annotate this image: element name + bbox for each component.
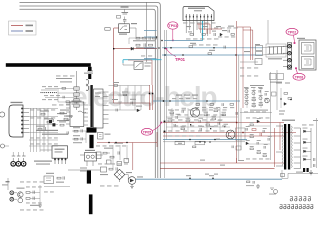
label redrail2 bbox=[240, 75, 258, 78]
label tiny rows left2 bbox=[80, 171, 87, 172]
switch SW801 bbox=[134, 62, 143, 70]
wire bbox=[44, 186, 70, 188]
output caps bbox=[314, 158, 315, 167]
resistor R807 bbox=[74, 99, 79, 102]
component marks bbox=[99, 135, 102, 137]
label rows bbox=[250, 85, 264, 86]
rectifier diodes D820-D823 bbox=[303, 128, 312, 161]
connector CN801 body bbox=[183, 6, 214, 20]
test point TP02 circle bbox=[286, 28, 298, 35]
connector circle left bbox=[1, 144, 5, 148]
wire bbox=[30, 192, 40, 194]
node bbox=[189, 178, 190, 179]
wire power bbox=[160, 162, 284, 164]
inlet module upper detail bbox=[304, 45, 311, 51]
connector CN803 body bbox=[9, 105, 23, 137]
label bbox=[44, 118, 53, 119]
label bottomleft2 bbox=[20, 209, 44, 212]
test point TP08 lead bbox=[296, 70, 297, 74]
label bl extra2 bbox=[26, 202, 42, 205]
label bbox=[244, 51, 250, 52]
wire bbox=[109, 85, 151, 87]
transformer T802 core bar1 bbox=[284, 124, 286, 170]
label bbox=[145, 63, 152, 64]
label bbox=[222, 30, 227, 31]
capacitor C808 bbox=[74, 104, 79, 107]
diode D802 bbox=[220, 33, 222, 36]
component at end bbox=[281, 174, 285, 177]
wire mid gray bbox=[163, 141, 245, 143]
jack J5 bbox=[10, 197, 14, 201]
relay block bbox=[256, 46, 263, 51]
wire mesh bbox=[29, 108, 58, 152]
wire bbox=[206, 108, 208, 132]
node bbox=[170, 47, 171, 48]
resistor R847 bbox=[110, 156, 114, 158]
relay block2 bbox=[256, 52, 263, 56]
inlet module lower detail bbox=[304, 59, 311, 65]
wire power bbox=[243, 29, 253, 31]
wire bbox=[101, 154, 103, 156]
signal wire mid bbox=[163, 139, 247, 141]
svg-text:TP08: TP08 bbox=[295, 75, 304, 79]
label cluster extra1 bbox=[170, 119, 223, 122]
node bbox=[156, 36, 157, 37]
svg-text:TP02: TP02 bbox=[288, 30, 297, 34]
wire bbox=[171, 108, 173, 132]
resistor R852 bbox=[288, 98, 292, 100]
resistor R831 bbox=[47, 121, 51, 123]
box around Q804 bbox=[236, 128, 246, 140]
resistor R840 bbox=[26, 192, 30, 194]
diode D803 bbox=[137, 109, 140, 112]
wire bbox=[240, 112, 272, 114]
capacitor C846 bbox=[118, 151, 119, 154]
dark component pair2 bbox=[52, 123, 55, 126]
wire power B+ bbox=[163, 122, 284, 124]
rectifier diode D812 bbox=[128, 177, 136, 185]
label bbox=[119, 34, 127, 35]
component box r bbox=[272, 92, 277, 96]
label rows below CN801 b bbox=[186, 38, 219, 41]
dashed net dots bbox=[40, 92, 56, 93]
wire bbox=[124, 17, 126, 20]
isolation barrier segment bbox=[89, 194, 93, 214]
inlet module upper bbox=[302, 43, 315, 55]
wire bbox=[45, 88, 58, 90]
label bbox=[186, 175, 191, 176]
wire bbox=[246, 88, 248, 108]
optocoupler PC801 bbox=[85, 153, 97, 162]
resistor R829 bbox=[64, 118, 68, 120]
wire bbox=[107, 152, 110, 154]
resistor R851 bbox=[284, 93, 288, 95]
wire right edge bbox=[296, 172, 318, 174]
label bbox=[73, 127, 80, 128]
label bbox=[126, 172, 132, 173]
label bbox=[64, 116, 73, 117]
wire horizontal bbox=[240, 61, 258, 63]
label bl extra3 bbox=[44, 191, 54, 194]
label near red bbox=[238, 160, 244, 161]
connector CN802 strip bbox=[287, 43, 291, 69]
capacitor C841 bbox=[33, 197, 34, 200]
capacitor C834 bbox=[67, 131, 68, 134]
capacitor C820 bbox=[224, 46, 225, 49]
signal wire riser bbox=[202, 21, 204, 41]
node bbox=[209, 141, 210, 142]
node bbox=[158, 47, 159, 48]
connector CN801 pin leads bbox=[186, 21, 211, 36]
signal stub bbox=[144, 47, 157, 49]
resistor R804 bbox=[202, 34, 205, 36]
wire power bbox=[163, 132, 296, 134]
wire bbox=[316, 118, 318, 168]
wire bbox=[124, 21, 126, 24]
tap rail bbox=[300, 128, 302, 169]
parts below bottom wire bbox=[246, 181, 254, 186]
label bbox=[105, 134, 111, 135]
IC801 label bbox=[72, 101, 82, 102]
wire bbox=[129, 27, 136, 29]
parts row under wire bbox=[196, 103, 234, 106]
resistor R808 bbox=[62, 87, 66, 89]
wire power bbox=[199, 28, 222, 30]
label bbox=[113, 82, 119, 83]
output rail bbox=[310, 128, 312, 168]
label bbox=[296, 172, 303, 173]
isolation barrier horizontal bbox=[6, 63, 91, 67]
resistor R814 bbox=[149, 44, 153, 46]
label bbox=[73, 135, 80, 136]
IC802 pins bbox=[54, 158, 66, 164]
component cluster secondary bbox=[168, 108, 229, 131]
capacitor C810 bbox=[149, 36, 150, 39]
wire gray cont bbox=[282, 173, 296, 178]
label bbox=[59, 121, 66, 122]
capacitor C833 bbox=[81, 137, 82, 140]
label leftcol bbox=[56, 75, 75, 78]
wire bus outer bbox=[20, 3, 161, 178]
wire bbox=[58, 88, 74, 90]
wire bbox=[109, 94, 146, 96]
label bbox=[122, 92, 128, 93]
resistor R802 bbox=[105, 28, 110, 31]
resistor R832 bbox=[38, 128, 42, 130]
wire bbox=[119, 86, 121, 111]
wire bbox=[58, 101, 74, 103]
signal wire bottom bbox=[136, 178, 282, 180]
label big row bbox=[36, 130, 58, 131]
label rows2 bbox=[250, 110, 268, 111]
capacitor C801 bbox=[122, 12, 129, 14]
label mesh left3 bbox=[30, 137, 58, 140]
transformer T802 taps bbox=[294, 128, 301, 169]
transformer T802 label bbox=[282, 120, 295, 121]
label cluster secondary top bbox=[168, 109, 227, 112]
wire bbox=[123, 64, 130, 66]
capacitor C832 bbox=[81, 129, 82, 132]
node bbox=[161, 40, 162, 41]
wire bbox=[262, 53, 287, 55]
label bbox=[178, 143, 182, 144]
label bbox=[209, 50, 215, 51]
test point TP05 circle bbox=[141, 128, 152, 135]
label bbox=[73, 142, 82, 143]
label bbox=[104, 148, 113, 149]
wire bbox=[270, 72, 272, 160]
label midbottom2 bbox=[98, 163, 128, 166]
label bbox=[36, 126, 45, 127]
wire bbox=[45, 97, 58, 99]
signal riser bbox=[122, 60, 124, 63]
component cluster right bbox=[245, 88, 269, 107]
IC802 body bbox=[52, 146, 68, 158]
connector pin row 1 bbox=[290, 196, 311, 201]
wire bbox=[109, 102, 151, 104]
vertical bbox=[119, 145, 121, 160]
resistor R815 bbox=[114, 85, 118, 87]
IC801 primary controller bbox=[70, 102, 84, 127]
wire power bbox=[97, 142, 157, 144]
label cluster2 bbox=[60, 81, 72, 82]
capacitor C845 bbox=[116, 167, 117, 170]
test point TP03 pad bbox=[172, 39, 174, 41]
wire bbox=[14, 198, 17, 200]
wire bbox=[125, 174, 128, 176]
wire power bbox=[198, 24, 200, 29]
inlet module lower bbox=[302, 57, 315, 69]
wire bbox=[109, 109, 142, 111]
label transformer right bbox=[302, 124, 314, 127]
red component2 bbox=[260, 133, 261, 136]
wire bbox=[134, 86, 136, 111]
wire bbox=[30, 198, 40, 200]
capacitor C816 bbox=[236, 112, 237, 115]
wire gray up bbox=[281, 170, 283, 178]
wire bbox=[58, 92, 74, 94]
wire bbox=[57, 89, 59, 103]
wire power bbox=[114, 27, 119, 29]
resistor R816 bbox=[123, 94, 127, 96]
label bbox=[200, 160, 205, 161]
label rows below CN801 d bbox=[214, 27, 238, 30]
dense text bbox=[2, 184, 8, 185]
wire bbox=[248, 143, 270, 145]
label bbox=[270, 82, 282, 83]
resistor R834 bbox=[74, 138, 78, 140]
dark component pair bbox=[49, 120, 52, 123]
label under wire bbox=[195, 106, 234, 109]
label bbox=[188, 31, 192, 32]
vertical wire bbox=[7, 178, 9, 190]
ground bottom mid bbox=[256, 184, 260, 188]
wire bbox=[72, 138, 86, 140]
connector pin row 2 bbox=[280, 204, 313, 209]
label mesh top2 bbox=[44, 94, 60, 97]
wire power bbox=[206, 29, 208, 34]
relay contact bbox=[120, 26, 127, 30]
resistor R812 bbox=[153, 37, 157, 39]
IC801 label2 bbox=[72, 104, 80, 105]
wire bus middle bbox=[20, 6, 158, 178]
label redrail bbox=[240, 67, 258, 70]
wire power vertical bbox=[113, 28, 115, 103]
label bbox=[216, 26, 221, 27]
wire power bottom bbox=[236, 158, 238, 163]
ground under D812 bbox=[130, 184, 134, 188]
label bbox=[145, 66, 151, 67]
wire bbox=[5, 145, 10, 147]
relay RL801 bbox=[119, 24, 130, 33]
label bbox=[131, 23, 137, 24]
primary winding bbox=[86, 80, 89, 91]
transformer T802 primary winding bbox=[282, 125, 283, 167]
label bbox=[112, 99, 118, 100]
wire power bbox=[250, 27, 252, 60]
label bbox=[60, 110, 69, 111]
wire bbox=[187, 108, 189, 132]
capacitor C828 bbox=[70, 115, 71, 118]
transformer T801 secondary box bbox=[94, 89, 104, 128]
label above wire bbox=[172, 97, 197, 100]
node bbox=[213, 47, 214, 48]
box small2 bbox=[117, 162, 122, 166]
test point TP08 circle bbox=[293, 73, 305, 80]
capacitor C806 bbox=[214, 33, 215, 36]
wire bbox=[166, 126, 230, 128]
capacitor C843 bbox=[63, 176, 64, 179]
wire bbox=[128, 38, 130, 44]
label bbox=[46, 173, 54, 174]
component box pair bbox=[270, 74, 277, 80]
label cluster secondary low bbox=[168, 130, 225, 133]
test point TP01 pad bbox=[165, 48, 167, 50]
resistor R846 bbox=[103, 152, 107, 154]
node bbox=[182, 54, 183, 55]
label leftcol2 bbox=[52, 104, 71, 107]
component hang box bbox=[175, 141, 185, 145]
choke L801 bbox=[78, 111, 86, 113]
connector CN802 wires bbox=[283, 46, 287, 66]
wire bbox=[72, 130, 86, 132]
resistor R811 bbox=[142, 37, 146, 39]
capacitor C831 bbox=[44, 127, 45, 130]
node bbox=[189, 139, 190, 140]
label in box bbox=[95, 93, 101, 94]
wire power bbox=[197, 23, 210, 25]
wire bbox=[68, 169, 100, 171]
wire power bbox=[156, 132, 158, 147]
wire power bbox=[132, 143, 134, 171]
label rightcluster2 bbox=[244, 111, 266, 114]
IC801 pins bbox=[66, 104, 88, 125]
part above red bbox=[193, 146, 196, 148]
fuse symbol below barrier bbox=[87, 71, 93, 73]
capacitor C814 bbox=[116, 109, 117, 112]
label bbox=[285, 83, 290, 84]
test point TP08 pad bbox=[295, 67, 297, 69]
wire bbox=[129, 37, 157, 39]
signal wire primary bbox=[123, 59, 162, 61]
label bbox=[17, 188, 25, 189]
node bbox=[206, 100, 207, 101]
label bbox=[40, 111, 49, 112]
wire power corner bbox=[150, 85, 153, 110]
component box bbox=[98, 133, 104, 140]
optocoupler label bbox=[85, 150, 95, 151]
node junction bbox=[164, 131, 166, 133]
component box mid bbox=[96, 152, 101, 159]
label bbox=[57, 113, 67, 114]
svg-text:TP01: TP01 bbox=[175, 57, 186, 62]
legend label Signal bbox=[26, 30, 34, 32]
switch contact bbox=[136, 63, 143, 68]
connector CN802 pins bbox=[288, 45, 291, 69]
component hang box2 bbox=[195, 141, 205, 145]
node bbox=[280, 98, 281, 99]
label bbox=[186, 26, 191, 27]
resistor R833 bbox=[74, 130, 78, 132]
label bbox=[57, 120, 69, 121]
wire bbox=[58, 97, 74, 99]
node bbox=[236, 122, 237, 123]
node bbox=[242, 132, 243, 133]
legend signal line bbox=[11, 30, 23, 32]
node bbox=[212, 178, 213, 179]
jack wires bbox=[13, 152, 23, 156]
wire bbox=[219, 108, 221, 132]
label mesh left bbox=[30, 109, 55, 112]
label dashes bbox=[41, 89, 57, 92]
connector CN803 pins bbox=[21, 108, 29, 134]
label text rows bbox=[34, 161, 52, 162]
wire power bbox=[242, 27, 244, 108]
label tiny rows left bbox=[80, 168, 87, 169]
label bbox=[279, 114, 284, 115]
power inlet module box bbox=[299, 40, 316, 70]
transformer T802 core bar2 bbox=[288, 124, 290, 170]
label bbox=[279, 111, 285, 112]
capacitor C840 bbox=[33, 191, 34, 194]
resistor R845 bbox=[109, 168, 113, 170]
component box bbox=[101, 167, 107, 172]
box right mid bbox=[236, 146, 241, 150]
fuse F801 bbox=[74, 87, 79, 90]
wire power bbox=[237, 26, 251, 28]
label bbox=[114, 143, 123, 144]
test point TP02 lead bbox=[294, 35, 295, 42]
box bbox=[255, 59, 262, 65]
isolation barrier step bbox=[88, 67, 92, 71]
node bbox=[163, 100, 165, 102]
signal wire bbox=[164, 40, 203, 42]
wire bbox=[248, 125, 270, 127]
isolation barrier segment bbox=[87, 170, 91, 183]
label mesh top3 bbox=[42, 98, 58, 101]
transistor Q801 bbox=[18, 192, 24, 198]
transistor Q805 bbox=[265, 98, 270, 103]
bridge rectifier D810 bbox=[114, 169, 125, 179]
connector CN801 label bbox=[188, 8, 205, 9]
jack J4 bbox=[10, 191, 14, 195]
polarity marks bbox=[303, 168, 305, 172]
label bbox=[216, 139, 220, 140]
label mesh top bbox=[42, 85, 58, 88]
label bbox=[228, 26, 234, 27]
label bbox=[268, 58, 282, 59]
signal stub bbox=[144, 36, 157, 38]
